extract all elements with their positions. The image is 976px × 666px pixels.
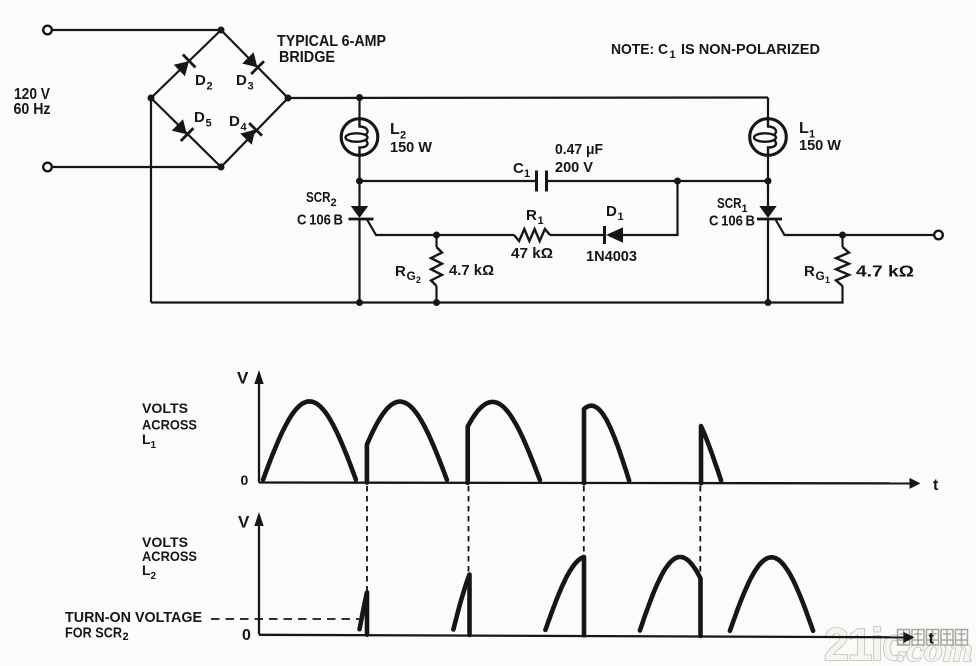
wire bridge left node down [150,98,152,303]
svg-text:D: D [195,72,206,89]
wire RG2 to bottom rail [435,286,437,303]
wire lamp L1 to node [767,155,769,181]
L2 waveform pulse 2 [453,575,469,636]
diode D5 [171,119,193,141]
svg-text:FOR SCR: FOR SCR [65,625,122,642]
svg-text:IS NON-POLARIZED: IS NON-POLARIZED [681,41,820,58]
svg-text:1: 1 [825,275,830,285]
svg-text:G: G [407,269,416,283]
svg-text:4: 4 [241,122,248,134]
diode D3 [242,52,264,74]
svg-text:4.7 kΩ: 4.7 kΩ [856,264,914,281]
wire gate node down to RG1 [841,235,843,247]
svg-text:5: 5 [206,118,212,130]
capacitor C1 [535,171,538,192]
L1 waveform hump 5 [701,426,721,483]
wire RG1 to bottom rail [841,286,843,304]
svg-text:C 106 B: C 106 B [297,212,343,229]
bridge edge left-bottom (wire) [151,98,221,167]
svg-text:D: D [606,203,617,220]
svg-text:D: D [194,109,205,126]
dashed line at fourth firing [699,486,701,575]
svg-text:2: 2 [416,275,421,285]
L2 waveform pulse 1 [360,592,368,634]
bridge edge top-right (wire) [221,30,288,98]
wire lamp L2 to node [358,155,360,181]
dashed line at third firing [583,486,585,554]
diode D4 [240,123,262,145]
junction dot SCR2 cathode at rail [356,299,363,306]
diode D2 [173,55,195,77]
svg-text:3: 3 [248,81,254,93]
wire top rail from bridge right node [288,96,768,99]
wire gate node down to RG2 [435,235,437,247]
wire C1 left [360,180,537,182]
junction dot bridge top node [218,27,225,34]
junction dot RG2 at rail [433,299,440,306]
bridge edge left-top (wire) [151,30,221,98]
svg-text:C 106 B: C 106 B [709,213,755,230]
svg-text:2: 2 [207,81,213,93]
svg-text:SCR: SCR [717,195,742,212]
svg-text:NOTE: C: NOTE: C [611,41,668,58]
L2 waveform pulse 4 [640,557,701,636]
wire C1 right [547,180,769,182]
turn-on voltage dashed level [211,618,359,620]
input terminal top-left [43,26,52,35]
svg-text:SCR: SCR [306,189,331,206]
lamp L1 [750,119,787,156]
svg-text:150 W: 150 W [799,137,842,154]
resistor R1 [514,229,550,241]
junction dot SCR1 anode [765,178,772,185]
junction dot C1-D1 tap [674,178,681,185]
wire C1 node down to D1 line [623,181,678,235]
thyristor SCR1 [757,181,782,303]
upper graph y-axis [258,380,260,483]
svg-text:L: L [799,120,809,137]
svg-text:D: D [236,72,247,89]
svg-text:D: D [229,113,240,130]
svg-text:BRIDGE: BRIDGE [279,49,335,66]
lower graph x-axis [259,635,904,638]
wire R1 to gate node [437,234,515,236]
junction dot SCR2 gate node [433,232,440,239]
svg-text:R: R [526,207,537,224]
dashed line at second firing [468,486,470,572]
junction dot SCR2 anode / C1 tap [356,178,363,185]
lower graph y-axis [258,522,260,635]
input terminal bottom-left [43,163,52,172]
svg-text:1: 1 [524,168,530,180]
svg-text:1: 1 [670,49,676,61]
svg-text:2: 2 [331,197,337,209]
svg-text:1N4003: 1N4003 [586,248,637,265]
svg-text:60 Hz: 60 Hz [14,101,51,118]
svg-text:2: 2 [123,631,129,643]
resistor RG1 [836,247,849,286]
lamp L2 [341,119,378,156]
junction dot RG1 gate node [839,232,846,239]
L2 waveform pulse 3 [545,557,584,636]
svg-text:2: 2 [151,571,157,582]
thyristor SCR2 [349,181,374,303]
wire SCR1 gate [776,220,934,236]
junction dot bridge bottom node [218,164,225,171]
svg-text:0: 0 [241,472,249,488]
diode D1 [606,227,623,242]
wire into lamp L2 [358,98,360,120]
svg-text:1: 1 [151,440,157,451]
wire gate node to SCR2 gate [367,220,437,236]
svg-text:V: V [237,368,249,387]
svg-text:47 kΩ: 47 kΩ [511,245,553,262]
L2 waveform pulse 5 [730,557,813,631]
svg-text:V: V [238,513,250,532]
svg-text:TURN-ON VOLTAGE: TURN-ON VOLTAGE [65,609,202,626]
L1 waveform hump 1 [263,401,356,479]
svg-text:VOLTS: VOLTS [142,400,188,416]
svg-text:t: t [933,477,939,494]
junction dot bridge right node [285,95,292,102]
svg-text:R: R [395,263,406,280]
svg-text:TYPICAL 6-AMP: TYPICAL 6-AMP [277,33,386,50]
L1 waveform hump 3 [468,402,540,483]
svg-text:1: 1 [538,215,544,227]
resistor RG2 [431,247,442,286]
wire bottom rail [151,301,843,303]
svg-text:200 V: 200 V [555,159,593,176]
svg-text:150 W: 150 W [390,139,433,156]
upper graph x-axis [259,481,911,484]
svg-text:t: t [929,631,935,648]
svg-text:L: L [390,121,400,138]
wire bottom-left terminal to bridge bottom [52,166,221,168]
bridge edge bottom-right (wire) [221,98,288,167]
svg-text:21ic: 21ic [824,619,906,666]
wire top rail down to lamp L1 [767,98,769,120]
junction dot L2 branch [356,94,363,101]
svg-text:R: R [804,263,815,280]
wire D1 to R1 [550,234,605,236]
junction dot bridge left node [148,95,155,102]
svg-text:4.7 kΩ: 4.7 kΩ [449,262,494,279]
svg-text:G: G [816,269,825,283]
wire top-left terminal to bridge top [52,29,221,31]
L1 waveform hump 2 [367,402,447,483]
output terminal [934,231,943,240]
svg-text:1: 1 [618,211,624,223]
junction dot SCR1 cathode at rail [765,299,772,306]
svg-text:0: 0 [242,627,251,644]
svg-text:0.47 μF: 0.47 μF [555,141,603,158]
svg-text:C: C [513,160,524,177]
dashed line at first firing [366,486,368,591]
L1 waveform hump 4 [584,406,629,484]
